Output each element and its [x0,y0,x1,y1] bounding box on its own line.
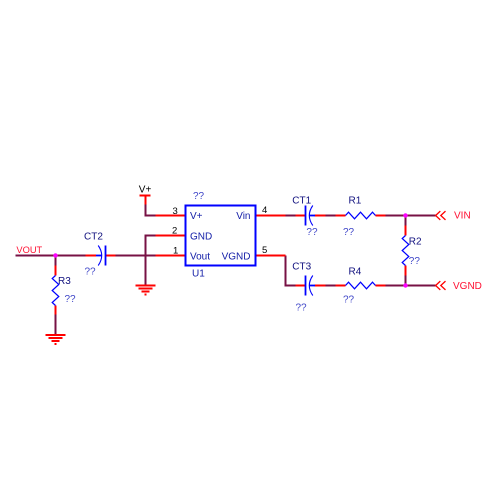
svg-text:R2: R2 [409,236,422,247]
svg-text:??: ?? [65,294,77,305]
svg-text:V+: V+ [190,211,203,222]
svg-text:??: ?? [409,256,421,267]
svg-text:R1: R1 [349,196,362,207]
svg-text:??: ?? [296,303,308,314]
svg-text:5: 5 [262,245,267,256]
svg-text:CT2: CT2 [84,232,103,243]
svg-text:??: ?? [343,295,355,306]
svg-text:Vin: Vin [236,211,250,222]
svg-text:VGND: VGND [222,251,251,262]
svg-text:??: ?? [85,266,97,277]
svg-text:4: 4 [262,205,267,216]
svg-text:2: 2 [172,226,177,237]
svg-text:??: ?? [193,191,205,202]
svg-text:VOUT: VOUT [16,245,42,255]
svg-text:Vout: Vout [190,251,210,262]
svg-text:??: ?? [343,227,355,238]
svg-text:1: 1 [173,246,178,257]
svg-text:U1: U1 [192,269,205,280]
svg-text:??: ?? [306,227,318,238]
svg-text:R3: R3 [58,276,71,287]
svg-text:CT1: CT1 [292,196,311,207]
svg-text:V+: V+ [139,185,152,196]
svg-text:CT3: CT3 [292,262,311,273]
svg-text:VIN: VIN [454,211,471,222]
svg-text:3: 3 [173,206,178,217]
svg-text:VGND: VGND [453,281,482,292]
svg-text:R4: R4 [349,266,362,277]
svg-text:GND: GND [190,231,212,242]
